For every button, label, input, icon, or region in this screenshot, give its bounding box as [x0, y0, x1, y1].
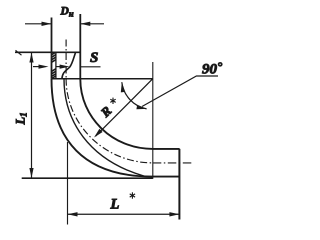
wire: bore edge arc continuing through the bend	[64, 79, 145, 176]
wire: curve of bore inside section rectangle	[62, 52, 76, 78]
label asterisk of R	[110, 98, 115, 104]
svg-text:L1: L1	[14, 112, 29, 125]
wire: top face line of vertical pipe end with left extension tick	[15, 50, 81, 55]
capacitor C1: hatched wall section band	[52, 52, 56, 78]
node: section rectangle bottom / horizontal construction line to bend centre	[52, 78, 153, 80]
wire: inner wall arc of the bend	[80, 79, 179, 149]
svg-text:R: R	[97, 103, 115, 121]
wire: left extension line for L dimension (pipe centreline extended)	[67, 142, 69, 225]
svg-text:Dн: Dн	[60, 6, 74, 19]
label R	[97, 103, 115, 121]
wire: pipe outer-right wall and Dн right extension line	[79, 14, 81, 79]
node: R radius line with arrow onto centreline arc	[96, 79, 153, 136]
wire: bore line (inner edge of hatched wall)	[55, 52, 57, 79]
node: L1 dimension line with arrows	[31, 52, 33, 178]
wire: centreline dash-dot of horizontal pipe	[153, 162, 193, 164]
node: 90 degree angle arc with end arrows	[122, 82, 147, 109]
wire: pipe outer-left wall and Dн left extension line	[51, 18, 53, 79]
wire: bottom baseline extension line	[22, 177, 153, 179]
wire: vertical construction line at bend centre	[152, 62, 154, 179]
wire: centreline dash-dot arc of the bend	[66, 79, 153, 163]
node: L dimension line with arrows	[68, 213, 180, 215]
node: Dн dimension line with outside arrows	[25, 23, 104, 25]
wire: right pipe end face	[178, 149, 180, 220]
node: S leader line with double arrows through wall	[33, 66, 101, 68]
svg-text:L: L	[110, 197, 120, 213]
svg-text:90°: 90°	[202, 58, 223, 77]
wire: centreline dash-dot of vertical pipe	[65, 40, 67, 79]
label asterisk of L	[130, 192, 135, 198]
label L1 rotated	[14, 112, 29, 125]
wire: leader line from 90° label to angle arc	[142, 76, 218, 107]
svg-text:S: S	[90, 50, 98, 66]
wire: outer wall arc of the bend	[52, 79, 180, 177]
